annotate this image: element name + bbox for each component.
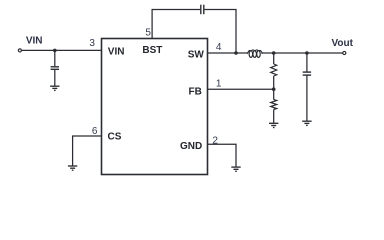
svg-text:2: 2 [212, 136, 218, 147]
svg-text:BST: BST [142, 45, 162, 56]
svg-text:6: 6 [92, 126, 98, 137]
svg-text:CS: CS [108, 132, 122, 143]
svg-text:3: 3 [89, 38, 95, 49]
svg-text:GND: GND [180, 141, 202, 152]
svg-text:4: 4 [216, 42, 222, 53]
svg-text:VIN: VIN [26, 35, 43, 46]
svg-text:5: 5 [145, 27, 151, 38]
svg-text:VIN: VIN [108, 47, 125, 58]
svg-text:FB: FB [189, 87, 202, 98]
svg-text:Vout: Vout [331, 38, 353, 49]
svg-text:SW: SW [188, 50, 205, 61]
svg-text:1: 1 [216, 78, 222, 89]
